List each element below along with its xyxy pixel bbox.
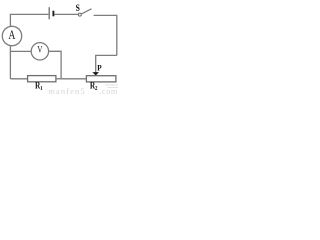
wire [10,14,48,26]
wire [49,51,61,79]
label R1 [35,81,43,92]
wire [94,15,117,55]
wire [10,78,27,80]
svg-text:S: S [76,2,80,13]
ammeter A [2,26,21,45]
voltmeter V [31,43,48,60]
rheostat R2 [86,76,116,82]
svg-text:manfen5: manfen5 [48,86,85,96]
wire [56,78,61,80]
svg-text:1: 1 [40,85,43,92]
label R2 [90,81,98,92]
wire [10,50,31,52]
label P [97,63,102,72]
resistor R1 [28,76,56,82]
switch S [78,9,91,16]
svg-text:V: V [37,44,43,55]
svg-text:P: P [97,63,102,72]
wire [96,55,117,72]
label S [76,2,80,13]
wire [9,46,11,79]
svg-text:2: 2 [95,85,98,92]
wire [61,78,86,80]
rheostat slider arrow P [92,72,99,76]
battery [49,7,53,19]
svg-text:A: A [8,29,15,42]
wire [55,13,79,15]
